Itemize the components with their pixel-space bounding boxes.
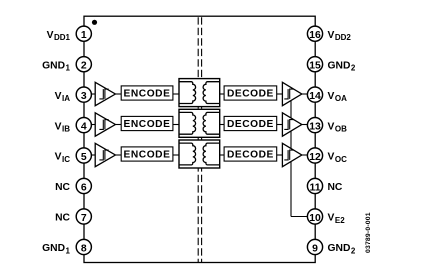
svg-text:3: 3 xyxy=(81,91,87,102)
svg-text:7: 7 xyxy=(81,213,87,224)
pin 4 circle xyxy=(76,118,91,133)
svg-text:NC: NC xyxy=(328,182,343,193)
output buffer B hysteresis symbol xyxy=(284,120,293,130)
ENCODE block channel C xyxy=(121,147,173,161)
pin 1 circle xyxy=(76,26,91,41)
pin 7 circle xyxy=(76,209,91,224)
svg-text:2: 2 xyxy=(81,61,87,72)
ENCODE block channel B xyxy=(121,116,173,130)
pin 9 circle xyxy=(307,239,322,254)
wire pin5 to input buffer C xyxy=(86,154,95,156)
wire input buffer A to encode A xyxy=(115,93,121,95)
pin 3 circle xyxy=(76,87,91,102)
svg-text:13: 13 xyxy=(309,122,321,133)
svg-text:NC: NC xyxy=(55,213,70,224)
wire encode C to transformer T3 xyxy=(173,154,179,156)
transformer T2 box xyxy=(179,109,220,137)
svg-text:DECODE: DECODE xyxy=(227,119,274,130)
output buffer B xyxy=(282,113,301,136)
output buffer A hysteresis symbol xyxy=(284,89,293,99)
transformer T1 primary winding xyxy=(179,82,196,104)
wire output buffer C to pin 12 xyxy=(302,154,313,156)
input buffer C xyxy=(95,143,115,166)
svg-text:ENCODE: ENCODE xyxy=(124,119,171,130)
wire encode A to transformer T1 xyxy=(173,93,179,95)
wire decode A to output buffer A xyxy=(277,93,283,95)
svg-text:8: 8 xyxy=(81,244,87,255)
pin 2 circle xyxy=(76,57,91,72)
transformer T2 primary winding xyxy=(179,112,196,134)
wire transformer T3 to decode C xyxy=(220,154,224,156)
pin 10 circle xyxy=(307,209,322,224)
input buffer A xyxy=(95,82,115,105)
wire encode B to transformer T2 xyxy=(173,124,179,126)
pin 16 circle xyxy=(307,26,322,41)
output buffer C hysteresis symbol xyxy=(284,150,293,160)
output buffer C xyxy=(282,143,301,166)
pin 11 circle xyxy=(307,178,322,193)
svg-text:6: 6 xyxy=(81,183,87,194)
wire output buffer B to pin 13 xyxy=(302,124,313,126)
pin 5 circle xyxy=(76,148,91,163)
svg-text:NC: NC xyxy=(55,182,70,193)
wire output buffer A to pin 14 xyxy=(302,93,313,95)
svg-text:5: 5 xyxy=(81,152,87,163)
svg-text:ENCODE: ENCODE xyxy=(124,150,171,161)
package outline xyxy=(84,16,315,262)
wire decode C to output buffer C xyxy=(277,154,283,156)
wire decode B to output buffer B xyxy=(277,124,283,126)
ENCODE block channel A xyxy=(121,86,173,100)
svg-text:12: 12 xyxy=(309,152,321,163)
svg-text:4: 4 xyxy=(81,122,87,133)
DECODE block channel A xyxy=(224,86,277,100)
transformer T1 box xyxy=(179,79,220,107)
wire input buffer C to encode C xyxy=(115,154,121,156)
pin 1 indicator dot xyxy=(92,20,97,25)
input buffer B xyxy=(95,113,115,136)
isolation barrier dashed line right xyxy=(201,17,203,262)
pin 14 circle xyxy=(307,87,322,102)
wire pin4 to input buffer B xyxy=(86,124,95,126)
svg-text:10: 10 xyxy=(309,213,321,224)
input buffer B hysteresis symbol xyxy=(99,120,108,130)
wire transformer T1 to decode A xyxy=(220,93,224,95)
wire enable bus to pin 10 xyxy=(291,216,312,218)
wire input buffer B to encode B xyxy=(115,124,121,126)
transformer T3 primary winding xyxy=(179,143,196,165)
DECODE block channel B xyxy=(224,116,277,130)
svg-text:DECODE: DECODE xyxy=(227,150,274,161)
transformer T1 secondary winding xyxy=(203,82,220,104)
svg-text:03789-0-001: 03789-0-001 xyxy=(365,212,372,253)
svg-text:ENCODE: ENCODE xyxy=(124,89,171,100)
svg-text:14: 14 xyxy=(309,91,321,102)
pin 13 circle xyxy=(307,118,322,133)
isolation barrier dashed line left xyxy=(197,17,199,262)
svg-text:DECODE: DECODE xyxy=(227,89,274,100)
pin 6 circle xyxy=(76,178,91,193)
svg-text:11: 11 xyxy=(310,183,321,194)
pin 8 circle xyxy=(76,239,91,254)
transformer T3 box xyxy=(179,140,220,168)
input buffer C hysteresis symbol xyxy=(99,150,108,160)
DECODE block channel C xyxy=(224,147,277,161)
transformer T2 secondary winding xyxy=(203,112,220,134)
net VE2 enable bus vertical xyxy=(290,99,292,217)
svg-text:1: 1 xyxy=(81,30,87,41)
transformer T3 secondary winding xyxy=(203,143,220,165)
svg-text:16: 16 xyxy=(309,30,321,41)
svg-text:15: 15 xyxy=(309,61,321,72)
output buffer A xyxy=(282,82,301,105)
wire pin3 to input buffer A xyxy=(86,93,95,95)
wire transformer T2 to decode B xyxy=(220,124,224,126)
input buffer A hysteresis symbol xyxy=(99,89,108,99)
svg-text:9: 9 xyxy=(312,244,318,255)
pin 15 circle xyxy=(307,57,322,72)
pin 12 circle xyxy=(307,148,322,163)
